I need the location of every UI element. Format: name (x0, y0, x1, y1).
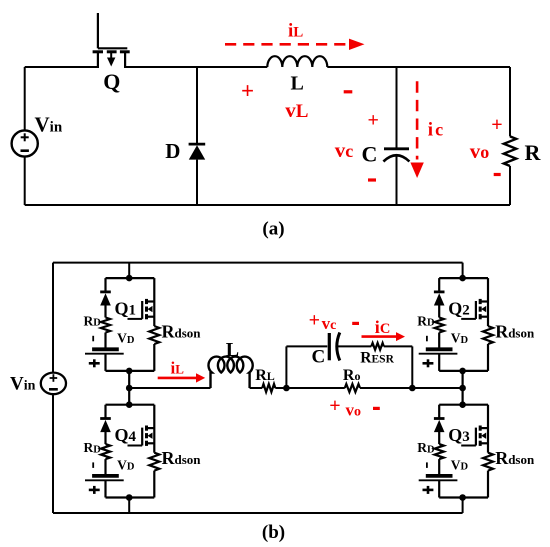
plus sign of Q4 (89, 489, 100, 492)
plus sign of Q2 (423, 362, 434, 365)
battery VD of Q3 (426, 474, 453, 478)
body diode of Q3 (438, 405, 440, 419)
resistor RESR (371, 343, 384, 350)
plus sign of Q3 (423, 489, 434, 492)
wire Q1 RD-VD (104, 333, 106, 350)
inductor L (a) (267, 56, 327, 67)
node right leg mid (459, 385, 466, 392)
svg-text:(b): (b) (262, 522, 285, 543)
wire Q4 RD-VD (104, 459, 106, 476)
wire cell Q4 bottom (106, 496, 155, 498)
wire block-right leg (412, 387, 462, 389)
node left leg upper-mid (126, 368, 133, 375)
svg-text:vc: vc (335, 138, 354, 162)
body diode of Q2 (438, 278, 440, 292)
svg-text:iL: iL (288, 21, 303, 42)
resistor RD of Q3 (435, 444, 444, 459)
svg-text:RESR: RESR (360, 349, 394, 366)
svg-text:VD: VD (117, 457, 135, 472)
svg-text:RD: RD (417, 314, 435, 329)
svg-text:VD: VD (117, 331, 135, 346)
svg-text:ic: ic (428, 120, 443, 141)
current arrow iC (b) (362, 335, 398, 338)
wire cell Q2 top (439, 277, 488, 279)
wire left rail lower (b) (52, 394, 54, 513)
node left leg mid (126, 385, 133, 392)
minus tick of Q3 (426, 462, 428, 468)
label - (vL minus) (344, 90, 353, 93)
wire top middle segment (a) (125, 66, 267, 68)
wire Ro-right (360, 387, 412, 389)
wire Q1 VD-bottom (104, 354, 106, 371)
wire block right vertical (411, 346, 413, 388)
node right leg bottom (459, 494, 466, 501)
node left leg bottom (126, 494, 133, 501)
transistor Q3 (mosfet) (487, 405, 489, 453)
svg-text:Ro: Ro (343, 367, 361, 384)
label - (vc minus a) (368, 178, 376, 181)
wire Q3 RD-VD (438, 459, 440, 476)
node RL-block (283, 385, 290, 392)
minus tick of Q1 (92, 336, 94, 342)
wire Q1 diode-RD (104, 305, 106, 317)
resistor Rdson of Q2 (483, 326, 493, 344)
svg-text:vo: vo (470, 139, 490, 163)
wire RL-node (275, 387, 286, 389)
svg-text:RD: RD (84, 440, 102, 455)
svg-text:Rdson: Rdson (162, 322, 202, 342)
svg-text:Rdson: Rdson (495, 322, 535, 342)
label - (vo minus a) (494, 173, 501, 176)
svg-text:iL: iL (171, 359, 185, 378)
wire left rail upper (b) (52, 263, 54, 373)
resistor Ro (345, 384, 360, 392)
wire inductor-RL (250, 387, 263, 389)
svg-text:Q2: Q2 (448, 299, 470, 319)
wire Q3 diode-RD (438, 432, 440, 444)
wire left leg middle (128, 371, 130, 405)
wire right leg middle (462, 371, 464, 405)
svg-text:Q4: Q4 (115, 425, 137, 445)
current arrow ic (a) (416, 81, 419, 159)
plus sign of Q1 (89, 362, 100, 365)
node right leg upper-mid (459, 368, 466, 375)
svg-text:VD: VD (451, 331, 469, 346)
svg-text:R: R (525, 140, 542, 165)
resistor Rdson of Q4 (149, 453, 159, 471)
wire block bottom-left (286, 387, 344, 389)
wire cell Q2 bottom (439, 370, 488, 372)
resistor RD of Q2 (435, 318, 444, 333)
svg-text:Q: Q (103, 69, 120, 94)
svg-text:+: + (491, 114, 502, 136)
resistor R (509, 67, 511, 136)
svg-text:(a): (a) (262, 219, 284, 240)
current arrow iL (b) (158, 377, 197, 380)
svg-text:vc: vc (322, 314, 337, 333)
svg-text:Q3: Q3 (448, 425, 470, 445)
resistor RL (262, 384, 275, 392)
wire bottom stub right leg (462, 498, 464, 514)
current arrow iL (a) (225, 43, 349, 46)
body diode of Q1 (104, 278, 106, 292)
battery VD of Q4 (92, 474, 119, 478)
svg-text:Vin: Vin (10, 374, 36, 395)
svg-text:vL: vL (285, 98, 308, 122)
wire left rail lower (a) (24, 157, 26, 205)
wire bottom rail (b) (53, 512, 463, 514)
minus tick of Q4 (92, 462, 94, 468)
voltage source Vin (a) (12, 130, 38, 156)
wire cell Q1 bottom (106, 370, 155, 372)
transistor Q2 (mosfet) (487, 278, 489, 326)
minus tick of Q2 (426, 336, 428, 342)
resistor Rdson of Q1 (149, 326, 159, 344)
svg-text:L: L (226, 339, 239, 361)
svg-text:L: L (291, 73, 304, 95)
wire top stub right leg (462, 263, 464, 279)
wire Q2 VD-bottom (438, 354, 440, 371)
resistor RD of Q4 (101, 444, 110, 459)
wire Q1 Rdson-bottom (153, 344, 155, 371)
wire Q3 Rdson-bottom (487, 471, 489, 498)
svg-text:iC: iC (375, 317, 391, 337)
svg-text:D: D (165, 139, 180, 163)
svg-text:vo: vo (346, 401, 362, 420)
resistor Rdson of Q3 (483, 453, 493, 471)
node left leg lower-mid (126, 401, 133, 408)
wire mid-left (b) (129, 387, 210, 389)
wire RESR-right (384, 345, 413, 347)
transistor Q1 (mosfet) (153, 278, 155, 326)
wire Q3 VD-bottom (438, 481, 440, 498)
wire Q4 VD-bottom (104, 481, 106, 498)
node block right (409, 385, 416, 392)
node right leg top (459, 275, 466, 282)
battery VD of Q1 (92, 347, 119, 351)
svg-text:RD: RD (417, 440, 435, 455)
wire Q2 diode-RD (438, 305, 440, 317)
transistor Q4 (mosfet) (153, 405, 155, 453)
resistor RD of Q1 (101, 318, 110, 333)
svg-text:VD: VD (451, 457, 469, 472)
wire Q2 RD-VD (438, 333, 440, 350)
wire top stub left leg (128, 263, 130, 279)
wire Q4 diode-RD (104, 432, 106, 444)
svg-text:Rdson: Rdson (495, 448, 535, 468)
wire block top-left (286, 345, 327, 347)
wire top-left segment (a) (25, 66, 98, 68)
wire top rail (b) (53, 262, 463, 264)
svg-text:RL: RL (255, 367, 275, 384)
battery VD of Q2 (426, 347, 453, 351)
svg-text:C: C (362, 142, 378, 167)
transistor Q (mosfet) (97, 13, 99, 48)
body diode of Q4 (104, 405, 106, 419)
wire cell Q1 top (106, 277, 155, 279)
svg-text:Rdson: Rdson (162, 448, 202, 468)
inductor L (b) (209, 357, 253, 388)
wire bottom rail (a) (25, 204, 510, 206)
wire Q2 Rdson-bottom (487, 344, 489, 371)
wire cell Q4 top (106, 404, 155, 406)
svg-text:Vin: Vin (35, 113, 63, 137)
svg-text:+: + (367, 110, 378, 132)
wire cell Q3 top (439, 404, 488, 406)
svg-text:C: C (312, 347, 326, 368)
svg-text:+: + (329, 395, 340, 417)
svg-text:Q1: Q1 (115, 299, 137, 319)
node left leg top (126, 275, 133, 282)
wire left rail upper (a) (24, 67, 26, 130)
wire top right segment (a) (327, 66, 510, 68)
wire Q4 Rdson-bottom (153, 471, 155, 498)
wire block left vertical (285, 346, 287, 388)
capacitor C (a) (396, 67, 398, 149)
svg-text:+: + (241, 79, 254, 104)
node right leg lower-mid (459, 401, 466, 408)
label - (vo minus b) (373, 407, 380, 410)
svg-text:+: + (309, 309, 320, 331)
svg-text:RD: RD (84, 314, 102, 329)
wire cell Q3 bottom (439, 496, 488, 498)
label - (vc minus b) (352, 322, 359, 325)
voltage source Vin (b) (41, 373, 66, 395)
wire cap-RESR (338, 345, 372, 347)
diode D (196, 67, 198, 144)
wire bottom stub left leg (128, 498, 130, 514)
capacitor C (b) (328, 333, 331, 360)
